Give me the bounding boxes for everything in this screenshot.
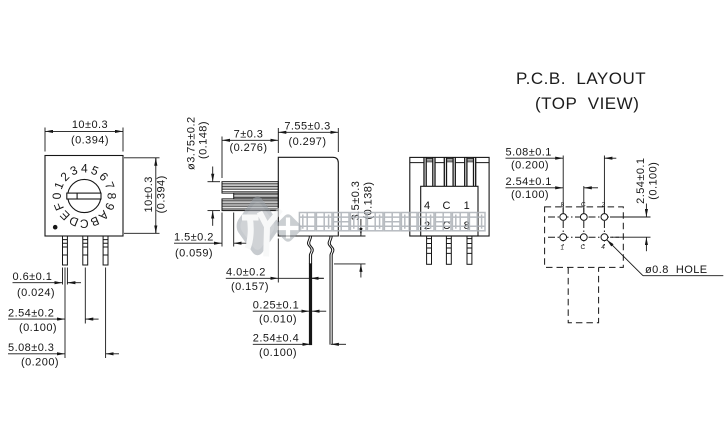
svg-text:0: 0 bbox=[50, 192, 64, 199]
svg-text:3.5±0.3: 3.5±0.3 bbox=[350, 181, 362, 221]
svg-text:1: 1 bbox=[464, 200, 470, 212]
svg-text:(0.059): (0.059) bbox=[175, 248, 213, 260]
svg-text:(0.010): (0.010) bbox=[259, 314, 297, 326]
dimension 0.6±0.1 pin width bbox=[13, 282, 82, 284]
switch body side profile bbox=[278, 157, 338, 236]
rear pin channel 3 bbox=[465, 157, 476, 186]
svg-text:7.55±0.3: 7.55±0.3 bbox=[284, 121, 330, 133]
rear label plate bbox=[421, 186, 478, 236]
rear pin channel 1 bbox=[424, 157, 435, 186]
switch body front square bbox=[45, 156, 123, 237]
pcb dimension 2.54±0.1 vertical right bbox=[610, 204, 651, 252]
svg-text:10±0.3: 10±0.3 bbox=[72, 119, 108, 131]
rear pin 1 bbox=[427, 236, 432, 264]
svg-text:(0.200): (0.200) bbox=[21, 357, 59, 369]
pin 2 front bbox=[83, 236, 88, 265]
dial characters 0-F bbox=[50, 162, 119, 231]
pin 1 front bbox=[63, 236, 68, 265]
watermark logo diamond large bbox=[234, 193, 282, 260]
dimension ø3.75±0.2 rotor thickness bbox=[208, 167, 221, 226]
svg-text:C: C bbox=[443, 200, 451, 212]
svg-text:1.5±0.2: 1.5±0.2 bbox=[174, 232, 214, 244]
svg-text:(0.394): (0.394) bbox=[71, 135, 109, 147]
knurled rotor upper flange bbox=[222, 182, 278, 193]
dimension 1.5±0.2 hub step bbox=[174, 213, 247, 247]
svg-text:P.C.B. LAYOUT: P.C.B. LAYOUT bbox=[516, 69, 646, 88]
watermark logo diamond small bbox=[272, 212, 303, 243]
watermark TY monogram bbox=[242, 218, 259, 249]
svg-text:(0.100): (0.100) bbox=[648, 162, 660, 200]
svg-text:(0.394): (0.394) bbox=[156, 175, 168, 213]
svg-text:C: C bbox=[581, 201, 586, 208]
hole labels bbox=[560, 201, 606, 251]
dimension 2.54±0.2 pin pitch bbox=[8, 318, 99, 320]
svg-text:1: 1 bbox=[560, 245, 564, 252]
slot divider bbox=[76, 193, 78, 199]
svg-text:4: 4 bbox=[424, 200, 430, 212]
rear pin channel 2 bbox=[444, 157, 455, 186]
svg-text:(TOP VIEW): (TOP VIEW) bbox=[535, 94, 639, 113]
title P.C.B. LAYOUT bbox=[516, 69, 646, 113]
dimension 10±0.3 top bbox=[45, 128, 123, 152]
rotor dial circle bbox=[68, 179, 101, 212]
dimension 7.55±0.3 body width bbox=[278, 128, 338, 153]
rear pin 3 bbox=[467, 236, 472, 264]
index dot marker bbox=[53, 225, 58, 230]
dimension 5.08±0.3 outer pin span bbox=[8, 353, 119, 355]
rear top band line bbox=[410, 162, 489, 164]
svg-text:5.08±0.1: 5.08±0.1 bbox=[506, 147, 552, 159]
side pin left (section, solid) bbox=[308, 236, 314, 345]
pin 3 front bbox=[103, 236, 108, 265]
knurled rotor lower flange bbox=[222, 199, 278, 211]
svg-text:C: C bbox=[80, 216, 89, 230]
hole 4 bbox=[601, 234, 608, 241]
svg-text:2.54±0.4: 2.54±0.4 bbox=[253, 333, 299, 345]
hole crosshair centerlines bbox=[548, 208, 619, 247]
side pin right (outline) bbox=[328, 236, 334, 345]
svg-text:(0.297): (0.297) bbox=[288, 136, 326, 148]
svg-text:2.54±0.1: 2.54±0.1 bbox=[635, 158, 647, 204]
pcb body dashed outline bbox=[545, 207, 624, 268]
svg-text:8: 8 bbox=[105, 193, 119, 200]
extension lines below front pins bbox=[63, 268, 106, 359]
svg-text:7±0.3: 7±0.3 bbox=[234, 129, 264, 141]
svg-text:4: 4 bbox=[601, 244, 605, 251]
svg-text:(0.024): (0.024) bbox=[17, 287, 55, 299]
svg-text:(0.276): (0.276) bbox=[229, 142, 267, 154]
svg-text:4: 4 bbox=[81, 162, 88, 176]
rear body outline bbox=[410, 157, 489, 236]
svg-text:4.0±0.2: 4.0±0.2 bbox=[226, 267, 266, 279]
dimension 2.54±0.4 side pin pitch bbox=[253, 343, 346, 345]
dimension 10±0.3 right vertical bbox=[124, 158, 160, 234]
watermark logo cross bbox=[278, 218, 299, 239]
hole C top bbox=[580, 214, 587, 221]
rear pin 2 bbox=[446, 236, 451, 264]
svg-text:(0.138): (0.138) bbox=[362, 181, 374, 219]
svg-text:ø3.75±0.2: ø3.75±0.2 bbox=[186, 116, 198, 170]
pcb dimension 5.08±0.1 bbox=[506, 156, 617, 213]
svg-text:(0.100): (0.100) bbox=[259, 347, 297, 359]
svg-text:8: 8 bbox=[561, 201, 565, 208]
hole 1 bbox=[560, 234, 567, 241]
hole C bottom bbox=[580, 234, 587, 241]
svg-text:(0.157): (0.157) bbox=[231, 281, 269, 293]
hole 2 bbox=[601, 214, 608, 221]
dimension 0.25±0.1 pin thickness bbox=[253, 310, 326, 312]
knurled rotor middle hub bbox=[234, 193, 279, 199]
svg-text:(0.100): (0.100) bbox=[511, 189, 549, 201]
svg-text:2.54±0.1: 2.54±0.1 bbox=[506, 176, 552, 188]
svg-text:0.6±0.1: 0.6±0.1 bbox=[13, 271, 53, 283]
svg-text:0.25±0.1: 0.25±0.1 bbox=[253, 300, 299, 312]
front pins bbox=[63, 236, 109, 265]
svg-text:C: C bbox=[580, 244, 585, 251]
ø0.8 HOLE leader bbox=[607, 240, 724, 276]
dimension 7±0.3 rotor width bbox=[222, 137, 278, 179]
svg-text:5.08±0.3: 5.08±0.3 bbox=[8, 342, 54, 354]
svg-text:(0.100): (0.100) bbox=[19, 322, 57, 334]
rear pin labels 4 C 1 / 2 C 8 bbox=[424, 200, 470, 232]
svg-text:10±0.3: 10±0.3 bbox=[143, 176, 155, 212]
hole 8 bbox=[560, 214, 567, 221]
svg-text:ø0.8 HOLE: ø0.8 HOLE bbox=[645, 264, 708, 276]
pcb shaft dashed outline bbox=[568, 267, 598, 322]
dimension 3.5±0.3 pin shoulder bbox=[334, 219, 366, 278]
screwdriver slot bbox=[67, 193, 101, 199]
pcb dimension 2.54±0.1 horizontal bbox=[506, 186, 599, 212]
svg-text:2: 2 bbox=[602, 201, 606, 208]
watermark chinese text 深圳市腾越通数码专营店 bbox=[299, 213, 485, 231]
svg-text:(0.200): (0.200) bbox=[511, 159, 549, 171]
dimension 4.0±0.2 body edge to pin bbox=[226, 239, 324, 283]
svg-text:(0.148): (0.148) bbox=[198, 121, 210, 159]
svg-text:2.54±0.2: 2.54±0.2 bbox=[8, 307, 54, 319]
